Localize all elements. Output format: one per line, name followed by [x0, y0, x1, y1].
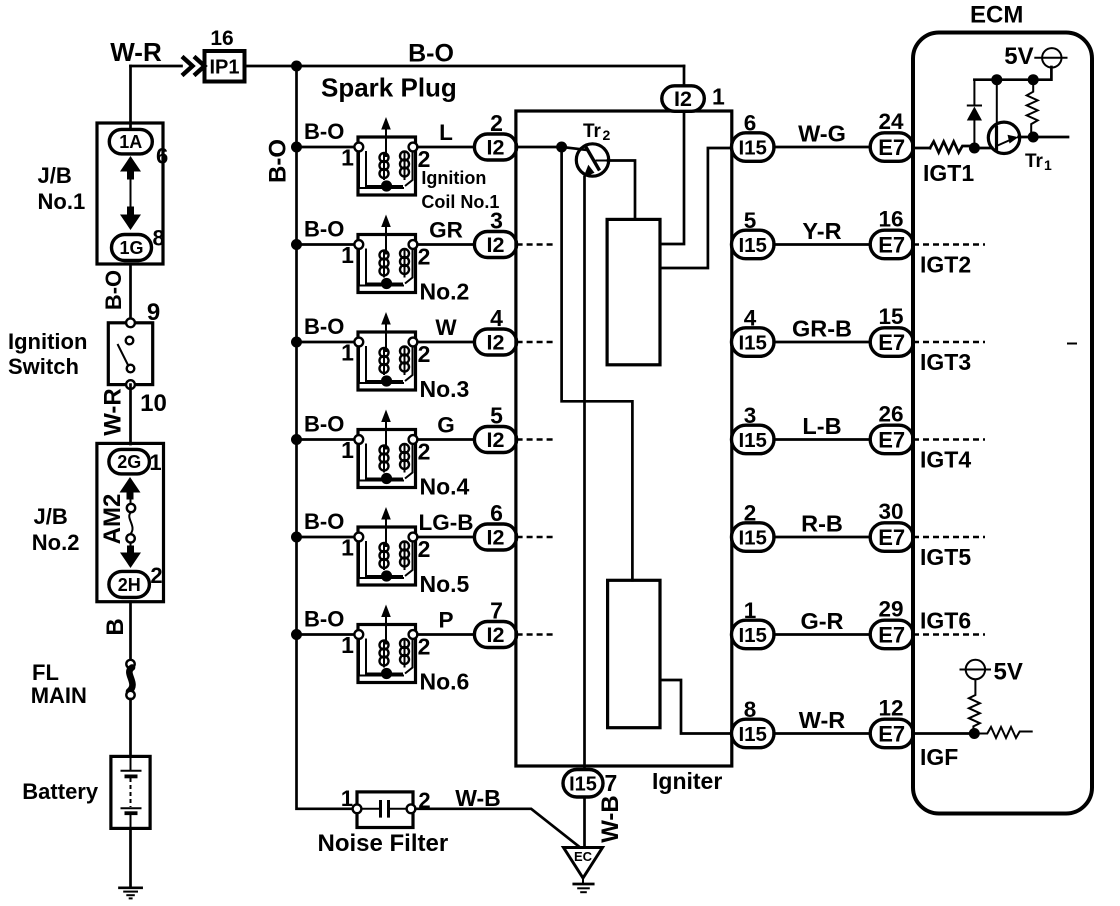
- connector I15 pin 7: [563, 770, 603, 798]
- ground EC triangle: [564, 848, 603, 879]
- diode (IGT1 clamp): [973, 120, 975, 148]
- switch blade: [118, 344, 129, 366]
- dashed stub IGT6: [913, 633, 985, 635]
- down arrow in J/B No.1: [120, 207, 141, 231]
- svg-text:16: 16: [210, 27, 233, 50]
- svg-text:GR-B: GR-B: [792, 316, 852, 342]
- svg-text:L-B: L-B: [802, 413, 841, 439]
- node emitter-resistor: [1028, 132, 1039, 143]
- connector arrows into IP1: [182, 57, 193, 76]
- ground (battery): [120, 886, 142, 889]
- dashed stub IGT4: [913, 438, 985, 440]
- logic block 1 (igniter): [607, 219, 660, 364]
- svg-text:I2: I2: [487, 331, 505, 355]
- svg-text:No.3: No.3: [420, 376, 470, 402]
- svg-text:1A: 1A: [119, 132, 142, 152]
- svg-text:Y-R: Y-R: [802, 218, 841, 244]
- svg-text:5V: 5V: [994, 659, 1023, 686]
- wire E7-12 to IGF node: [913, 732, 975, 735]
- svg-text:6: 6: [156, 144, 168, 169]
- wire B-O to ignition coil No.2: [297, 243, 359, 246]
- svg-text:16: 16: [878, 207, 903, 232]
- wire Tr2 emitter down to I15 pin 7: [583, 177, 586, 770]
- fuse AM2: [130, 499, 132, 504]
- wire W-R I15 to E7: [774, 732, 871, 735]
- wire Y-R I15 to E7: [774, 243, 871, 246]
- ignition switch terminals: [126, 318, 135, 327]
- wire switch to J/B No.2, W-R: [129, 385, 132, 444]
- svg-text:I15: I15: [569, 773, 597, 795]
- svg-text:2: 2: [418, 439, 431, 465]
- wire B-O to ignition coil No.6: [297, 633, 359, 636]
- svg-text:10: 10: [140, 390, 167, 417]
- connector I2 row 2: [474, 232, 516, 258]
- svg-text:B-O: B-O: [265, 139, 292, 183]
- wire coil to I2, L: [418, 146, 475, 149]
- svg-text:No.2: No.2: [420, 279, 470, 305]
- ignition coil No.4: [354, 410, 417, 488]
- wire Tr2 collector to logic block 1: [608, 161, 635, 220]
- svg-text:2: 2: [150, 563, 162, 588]
- node: bus junction row 4: [291, 434, 302, 445]
- svg-text:W: W: [435, 315, 457, 340]
- connector 1A: [109, 129, 152, 154]
- svg-text:W-G: W-G: [798, 121, 846, 147]
- svg-text:2: 2: [418, 244, 431, 270]
- svg-text:E7: E7: [878, 525, 905, 550]
- wire 2H to FL MAIN, B: [129, 602, 132, 660]
- wire B-O to ignition coil No.3: [297, 341, 359, 344]
- svg-text:2: 2: [418, 634, 431, 660]
- resistor (Tr1 pullup): [1027, 80, 1038, 137]
- svg-text:12: 12: [878, 696, 903, 721]
- wire B-O to ignition coil No.4: [297, 438, 359, 441]
- wire E7-24 to IGT1 resistor: [913, 147, 930, 150]
- node: bus junction row 2: [291, 239, 302, 250]
- wire I2 No.1 into igniter to Tr2 base: [517, 146, 562, 149]
- transistor Tr1: [988, 122, 1019, 153]
- wire R-B I15 to E7: [774, 536, 871, 539]
- dashed stub into igniter row 5: [517, 536, 553, 538]
- wire Tr1 emitter out: [1019, 136, 1069, 139]
- wire W-G I15 to E7: [774, 146, 871, 149]
- up arrow in J/B No.1: [120, 156, 141, 180]
- connector E7 pin 16: [870, 230, 913, 259]
- down arrow in J/B No.2: [120, 546, 141, 569]
- svg-text:J/B: J/B: [38, 163, 72, 188]
- svg-text:2: 2: [418, 536, 431, 562]
- ignition switch box: [108, 323, 152, 385]
- node: bus junction row 6: [291, 629, 302, 640]
- svg-text:B-O: B-O: [304, 314, 344, 339]
- svg-text:Switch: Switch: [8, 354, 79, 379]
- svg-text:7: 7: [490, 598, 503, 624]
- svg-text:1: 1: [744, 598, 757, 623]
- svg-text:B-O: B-O: [304, 119, 344, 144]
- connector I15 pin 3: [732, 425, 775, 454]
- connector I15 pin 2: [732, 523, 775, 552]
- wire B-O vertical bus: [297, 66, 354, 809]
- wire between arrows: [130, 179, 132, 209]
- connector I15 pin 4: [732, 328, 775, 357]
- node: bus junction row 1: [291, 142, 302, 153]
- ignition coil No.3: [354, 312, 417, 390]
- wire coil to I2, G: [418, 438, 475, 441]
- svg-text:2: 2: [603, 127, 611, 143]
- dashed stub into igniter row 6: [517, 633, 553, 635]
- svg-text:IGT3: IGT3: [920, 349, 971, 375]
- capacitor plates: [379, 800, 382, 818]
- svg-text:I15: I15: [738, 526, 767, 549]
- connector E7 pin 30: [870, 523, 913, 552]
- wire 5V rail: [974, 67, 1051, 80]
- node: bus junction row 5: [291, 532, 302, 543]
- connector 1G: [112, 235, 152, 261]
- wire B-O top bus: [297, 65, 685, 68]
- svg-text:30: 30: [878, 499, 903, 524]
- ground (EC): [574, 883, 593, 886]
- power symbol 5V: [1042, 48, 1061, 67]
- noise filter box: [357, 792, 413, 828]
- wire G-R I15 to E7: [774, 633, 871, 636]
- noise filter terminals: [353, 804, 362, 813]
- svg-text:L: L: [439, 120, 453, 145]
- connector I15 pin 6: [732, 133, 775, 162]
- svg-text:J/B: J/B: [34, 504, 68, 529]
- svg-text:29: 29: [878, 597, 903, 622]
- wire Tr2 base node to logic block 2: [562, 147, 633, 580]
- connector 2G: [109, 449, 149, 474]
- svg-text:1: 1: [341, 632, 354, 658]
- svg-text:B-O: B-O: [101, 270, 126, 310]
- svg-text:2: 2: [490, 110, 503, 136]
- svg-text:4: 4: [744, 306, 757, 331]
- transistor Tr2: [576, 144, 608, 176]
- node IGF: [969, 728, 980, 739]
- svg-text:I2: I2: [487, 526, 505, 550]
- wire coil to I2, GR: [418, 243, 475, 246]
- svg-text:Tr: Tr: [583, 121, 602, 142]
- capacitor leads: [361, 808, 381, 810]
- wire W-R top-left horizontal: [131, 65, 182, 68]
- connector IP1: [205, 51, 245, 82]
- svg-text:I15: I15: [738, 723, 767, 746]
- dashed stub into igniter row 4: [517, 438, 553, 440]
- up arrow in J/B No.2: [120, 477, 141, 500]
- svg-text:No.1: No.1: [38, 189, 86, 214]
- dashed stub IGT2: [913, 243, 985, 245]
- svg-text:E7: E7: [878, 427, 905, 452]
- node: bus junction row 3: [291, 337, 302, 348]
- svg-text:GR: GR: [429, 218, 463, 243]
- svg-text:3: 3: [490, 208, 503, 234]
- svg-text:1: 1: [149, 450, 161, 475]
- svg-text:E7: E7: [878, 330, 905, 355]
- svg-text:E7: E7: [878, 721, 905, 746]
- svg-text:I2: I2: [487, 623, 505, 647]
- connector E7 pin 12: [870, 719, 913, 748]
- wire rail to Tr1 collector: [996, 80, 998, 127]
- svg-text:2: 2: [418, 341, 431, 367]
- connector E7 pin 29: [870, 620, 913, 649]
- wire noise filter to EC, W-B: [415, 809, 580, 848]
- svg-text:5: 5: [490, 403, 503, 429]
- svg-text:I15: I15: [738, 429, 767, 452]
- svg-text:IGT2: IGT2: [920, 252, 971, 278]
- svg-text:G-R: G-R: [800, 608, 843, 634]
- wire coil to I2, W: [418, 341, 475, 344]
- svg-text:6: 6: [744, 111, 757, 136]
- svg-text:5V: 5V: [1004, 43, 1033, 70]
- svg-text:I2: I2: [487, 233, 505, 257]
- connector E7 pin 15: [870, 328, 913, 357]
- svg-text:26: 26: [878, 402, 903, 427]
- svg-text:7: 7: [605, 770, 618, 796]
- svg-text:4: 4: [490, 305, 503, 331]
- svg-text:Igniter: Igniter: [652, 768, 722, 794]
- connector I2 row 6: [474, 622, 516, 648]
- wire B-O to ignition coil No.1: [297, 146, 359, 149]
- svg-text:W-B: W-B: [455, 785, 501, 811]
- svg-text:I15: I15: [738, 624, 767, 647]
- resistor (IGF series): [974, 727, 1032, 738]
- connector E7 pin 26: [870, 425, 913, 454]
- svg-text:Tr: Tr: [1025, 151, 1044, 172]
- svg-text:2H: 2H: [118, 575, 141, 595]
- wire I2 pin1 line down to block 1: [660, 111, 684, 244]
- svg-text:8: 8: [744, 697, 757, 722]
- connector I2 row 5: [474, 524, 516, 550]
- svg-text:I15: I15: [738, 136, 767, 159]
- node IGT1: [969, 143, 980, 154]
- svg-text:LG-B: LG-B: [419, 510, 474, 535]
- svg-text:B-O: B-O: [304, 607, 344, 632]
- svg-text:B-O: B-O: [408, 40, 454, 68]
- wire I15 pin6 line down to block 1: [660, 148, 732, 268]
- svg-text:W-B: W-B: [597, 795, 624, 843]
- dashed stub IGT3: [913, 341, 985, 343]
- svg-text:W-R: W-R: [100, 388, 127, 436]
- svg-text:EC: EC: [574, 849, 593, 864]
- svg-text:I2: I2: [487, 136, 505, 160]
- svg-text:B-O: B-O: [304, 217, 344, 242]
- wire L-B I15 to E7: [774, 438, 871, 441]
- svg-text:8: 8: [153, 226, 165, 251]
- svg-text:B: B: [102, 618, 129, 635]
- connector I2 row 1: [474, 134, 516, 160]
- svg-text:B-O: B-O: [304, 509, 344, 534]
- svg-text:FL: FL: [32, 660, 59, 685]
- connector I15 pin 5: [732, 230, 775, 259]
- svg-text:AM2: AM2: [99, 494, 126, 545]
- svg-text:I15: I15: [738, 331, 767, 354]
- svg-text:IGT6: IGT6: [920, 608, 971, 634]
- connector I2 row 4: [474, 427, 516, 453]
- svg-text:1: 1: [1044, 157, 1052, 173]
- svg-text:IGT1: IGT1: [923, 160, 974, 186]
- wire I15 pin7 to EC ground, W-B: [583, 797, 586, 848]
- wire block 2 to I15 pin 8: [660, 680, 732, 734]
- svg-text:1: 1: [341, 145, 354, 171]
- svg-text:1: 1: [341, 786, 353, 811]
- svg-text:R-B: R-B: [801, 511, 843, 537]
- wire GR-B I15 to E7: [774, 341, 871, 344]
- svg-text:15: 15: [878, 304, 903, 329]
- svg-text:I2: I2: [674, 87, 692, 111]
- svg-text:IGT4: IGT4: [920, 447, 971, 473]
- svg-text:6: 6: [490, 500, 503, 526]
- dashed stub into igniter row 3: [517, 341, 553, 343]
- connector I2 row 3: [474, 329, 516, 355]
- node rail-collector: [991, 74, 1002, 85]
- svg-text:Noise Filter: Noise Filter: [318, 830, 449, 857]
- power symbol 5V (IGF): [966, 660, 985, 679]
- svg-text:1: 1: [341, 535, 354, 561]
- dashed stub into igniter row 2: [517, 243, 553, 245]
- node: Tr2 base junction: [556, 142, 567, 153]
- wire FL MAIN to battery: [129, 699, 132, 756]
- svg-text:MAIN: MAIN: [31, 683, 87, 708]
- connector I15 pin 8: [732, 719, 775, 748]
- svg-text:I15: I15: [738, 234, 767, 257]
- svg-text:2G: 2G: [117, 452, 141, 472]
- svg-text:E7: E7: [878, 135, 905, 160]
- svg-text:I2: I2: [487, 428, 505, 452]
- node: junction at IP1 output: [291, 61, 302, 72]
- svg-text:Coil No.1: Coil No.1: [421, 192, 499, 212]
- svg-text:2: 2: [744, 501, 757, 526]
- resistor (IGF pullup): [974, 679, 976, 694]
- svg-text:ECM: ECM: [970, 2, 1023, 29]
- dashed stub IGT5: [913, 536, 985, 538]
- wire 1G to ignition switch, B-O: [129, 264, 132, 319]
- svg-text:E7: E7: [878, 622, 905, 647]
- connector E7 pin 24: [870, 133, 913, 162]
- svg-text:No.2: No.2: [32, 530, 80, 555]
- svg-text:Spark Plug: Spark Plug: [321, 73, 457, 103]
- wire coil to I2, P: [418, 633, 475, 636]
- node rail-resistor: [1028, 74, 1039, 85]
- battery: [111, 756, 150, 828]
- logic block 2 (igniter): [608, 580, 660, 727]
- igniter box: [516, 111, 732, 766]
- ignition coil No.6: [354, 605, 417, 683]
- resistor (IGT1 base): [930, 142, 975, 153]
- svg-text:W-R: W-R: [799, 707, 846, 733]
- svg-text:No.4: No.4: [420, 474, 470, 500]
- svg-text:3: 3: [744, 403, 757, 428]
- node: corner at top-left: [129, 66, 132, 129]
- wire battery to ground: [129, 828, 132, 887]
- svg-text:1: 1: [341, 242, 354, 268]
- svg-text:IP1: IP1: [209, 57, 239, 79]
- svg-text:IGF: IGF: [920, 744, 958, 770]
- svg-text:G: G: [437, 413, 455, 438]
- J/B No.2 box: [97, 443, 164, 601]
- svg-text:IGT5: IGT5: [920, 544, 971, 570]
- wire B-O to ignition coil No.5: [297, 536, 359, 539]
- connector I15 pin 1: [732, 620, 775, 649]
- svg-text:Battery: Battery: [22, 779, 99, 804]
- connector I2 pin 1 (top): [662, 86, 705, 112]
- ignition coil No.1: [354, 117, 417, 195]
- wire EC apex to earth: [582, 878, 584, 884]
- svg-text:No.5: No.5: [420, 571, 470, 597]
- ignition coil No.2: [354, 215, 417, 293]
- svg-text:W-R: W-R: [110, 37, 162, 67]
- svg-text:24: 24: [878, 109, 904, 134]
- svg-text:P: P: [438, 608, 453, 633]
- J/B No.1 box: [97, 123, 163, 264]
- svg-text:E7: E7: [878, 232, 905, 257]
- svg-text:1: 1: [712, 84, 725, 110]
- ECM box: [913, 33, 1092, 814]
- wire IGT1 node to Tr1 base: [974, 147, 992, 150]
- svg-text:5: 5: [744, 208, 757, 233]
- ignition coil No.5: [354, 507, 417, 585]
- svg-text:1G: 1G: [119, 238, 143, 258]
- wire coil to I2, LG-B: [418, 536, 475, 539]
- wire IP1 to bus: [245, 65, 297, 68]
- svg-text:Ignition: Ignition: [421, 168, 486, 188]
- svg-text:1: 1: [341, 340, 354, 366]
- connector 2H: [109, 571, 149, 597]
- svg-text:B-O: B-O: [304, 412, 344, 437]
- svg-text:1: 1: [341, 437, 354, 463]
- fusible link FL MAIN: [126, 660, 134, 668]
- svg-text:No.6: No.6: [420, 669, 470, 695]
- svg-text:Ignition: Ignition: [8, 329, 87, 354]
